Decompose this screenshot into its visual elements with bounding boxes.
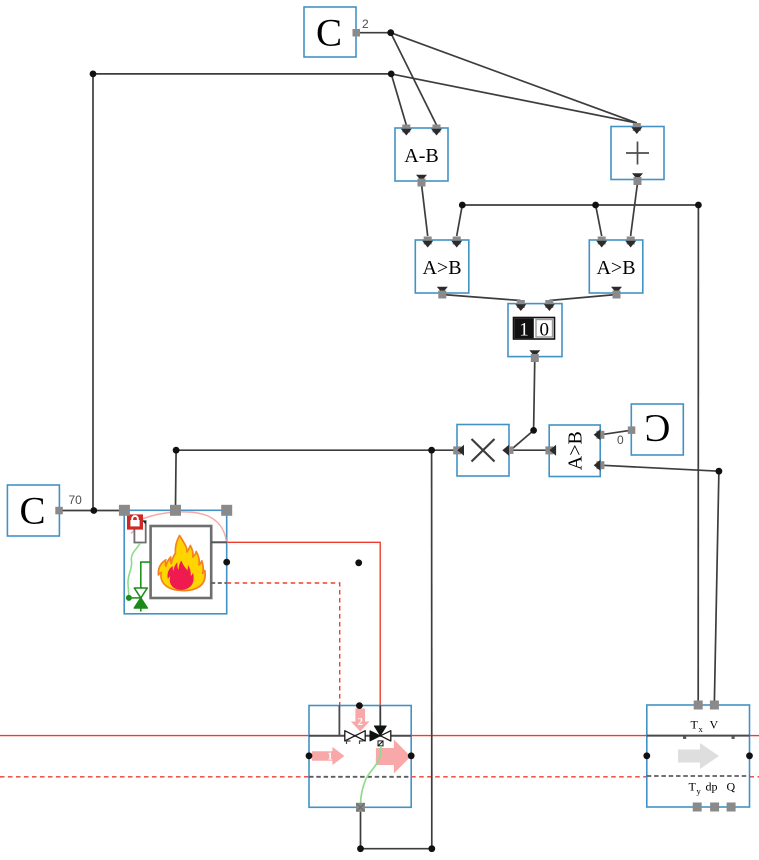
valve green actuator curve (361, 746, 381, 806)
sensor label Tx V (691, 718, 719, 735)
red dashed pipe from boiler return to valve (227, 583, 340, 705)
sensor bottom port 1 (693, 803, 702, 812)
wire Tx bus to A>B2 left input (596, 205, 602, 236)
sensor top port 2 (710, 701, 719, 710)
svg-text:0: 0 (617, 433, 624, 447)
boiler gray return stub dashed (211, 582, 227, 584)
sensor internal dashed pipe (647, 775, 750, 777)
wire bottom horizontal to valve (361, 848, 432, 850)
svg-text:C: C (316, 12, 342, 55)
wire node A to A-B right input (391, 33, 437, 125)
svg-text:A-B: A-B (404, 145, 438, 167)
node Tx bus left (459, 202, 466, 209)
sensor pipe tick marks (683, 736, 686, 739)
wire Tx riser down to sensor (697, 205, 699, 701)
boiler top-center port (170, 505, 181, 516)
valve pink arrow 2 (351, 709, 370, 732)
wire up to valve bottom port (360, 809, 362, 849)
boiler block (124, 510, 227, 614)
valve big pink arrow (376, 740, 411, 774)
boiler green sensor curve (128, 543, 140, 597)
red supply pipe line right segment (750, 735, 759, 737)
svg-text:2: 2 (358, 717, 363, 728)
svg-text:T: T (691, 718, 699, 732)
wire C2 output to node A (356, 32, 391, 34)
wire A>B2 output to switch right input (549, 295, 616, 301)
wire long horizontal from left riser to node B (93, 73, 391, 75)
comparator A>B right (589, 237, 643, 299)
red pipe from boiler output to valve (227, 542, 381, 705)
wire A>B rotated output to multiplier right input (511, 449, 550, 451)
boiler pale red control curve (131, 512, 226, 542)
boiler green node dot (126, 595, 132, 601)
svg-text:T: T (689, 780, 697, 794)
wire long control riser right of valve (431, 450, 433, 849)
wire node B to plus input (391, 74, 637, 123)
node control right (428, 447, 435, 454)
wire switch output down to node C (534, 358, 535, 430)
svg-text:A>B: A>B (422, 257, 461, 279)
wire C70 output to boiler top-left port (59, 510, 124, 512)
wire Tx bus to A>B1 right input (457, 205, 463, 236)
comparator A>B left (415, 237, 469, 299)
boiler green control line (141, 562, 151, 588)
red supply pipe line middle segment (411, 735, 647, 737)
node Tx bus right (695, 202, 702, 209)
node A (387, 29, 394, 36)
node valve left edge (306, 752, 313, 759)
node bottom right (428, 845, 435, 852)
wire left riser vertical (92, 74, 94, 511)
node sensor left edge (643, 752, 650, 759)
sensor bottom port 3 (727, 803, 736, 812)
sensor block (647, 705, 750, 807)
svg-text:C: C (19, 490, 45, 533)
valve block (309, 706, 411, 808)
wire multiplier output horizontal (176, 449, 457, 451)
wire A>B1 output to switch left input (442, 295, 520, 301)
svg-text:A>B: A>B (596, 257, 635, 279)
wire node A to plus input (391, 33, 637, 123)
node sensor right edge (746, 752, 753, 759)
boiler lock icon (127, 514, 143, 529)
sensor internal gray pipe (647, 735, 750, 737)
valve black drop to three-way valve (379, 706, 381, 727)
node left riser top (90, 71, 97, 78)
boiler gray output stub (211, 541, 227, 543)
comparator A>B rotated (545, 425, 604, 477)
valve gray drop from top left (338, 706, 340, 736)
svg-text:A>B: A>B (565, 431, 587, 470)
node boiler right edge (223, 559, 230, 566)
red return pipe dashed middle segment (411, 776, 647, 778)
red return pipe dashed left segment (0, 776, 309, 778)
wire node D down to sensor second port (714, 471, 719, 701)
node floating right of boiler (355, 559, 362, 566)
node C switch output (530, 427, 537, 434)
red supply pipe line left segment (0, 735, 309, 737)
svg-text:dp: dp (706, 780, 718, 794)
node Tx bus middle (592, 202, 599, 209)
wire C0 output to A>B rotated upper input (600, 430, 631, 435)
boiler green link to valve (129, 597, 141, 599)
svg-text:70: 70 (69, 493, 83, 507)
wire A-B output down to A>B left input (422, 184, 428, 236)
node bottom left (357, 845, 364, 852)
svg-text:C: C (644, 407, 670, 450)
valve three-way valve symbol (370, 726, 391, 746)
svg-text:V: V (710, 718, 719, 732)
valve two-way valve symbol (345, 731, 365, 744)
sensor bottom port 2 (710, 803, 719, 812)
sensor flow arrow (678, 743, 719, 769)
node B (388, 71, 395, 78)
constant C0 rotated (628, 404, 684, 455)
sensor label Ty dp Q (689, 780, 736, 797)
wire node C diagonal to multiplier right input (511, 430, 534, 450)
wire node B to A-B left input (391, 74, 406, 125)
constant C2 block (304, 7, 360, 57)
wire plus output down to A>B2 right input (631, 183, 638, 236)
add block + (611, 123, 664, 185)
wire Tx bus horizontal (462, 204, 698, 206)
red return pipe dashed right segment (750, 776, 759, 778)
boiler small gray box (134, 521, 145, 543)
switch block 1|0 (508, 300, 562, 362)
subtract block A-B (395, 125, 448, 187)
node control left (173, 447, 180, 454)
svg-text:Q: Q (727, 780, 736, 794)
node valve top edge (356, 702, 363, 709)
svg-text:1: 1 (327, 752, 332, 763)
valve pink arrow 1 (312, 747, 345, 765)
node D (716, 468, 723, 475)
sensor top port 1 (694, 701, 703, 710)
svg-text:1: 1 (519, 320, 529, 341)
boiler combustion chamber (151, 526, 212, 598)
node valve right edge (408, 752, 415, 759)
valve bottom port (356, 803, 365, 812)
svg-text:0: 0 (540, 320, 550, 341)
boiler top-left port (119, 505, 130, 516)
valve internal gray pipe (309, 735, 411, 737)
constant C70 (7, 485, 62, 536)
boiler flame (158, 536, 205, 591)
valve internal dashed pipe (309, 776, 411, 778)
node C70 junction (90, 507, 97, 514)
wire control drop to boiler top-center port (175, 450, 178, 506)
svg-text:2: 2 (362, 17, 369, 31)
multiplier block (453, 425, 513, 477)
boiler top-right port (221, 505, 232, 516)
boiler check valve (134, 588, 147, 612)
wire sensor V riser to node D (600, 465, 719, 471)
